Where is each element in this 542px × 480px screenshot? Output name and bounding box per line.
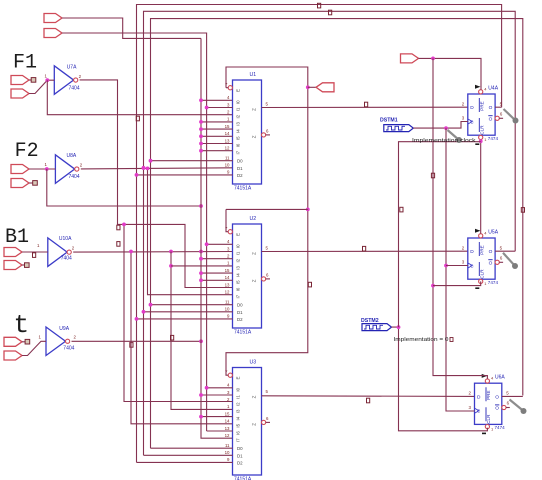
svg-text:D0: D0 — [237, 303, 243, 308]
svg-text:I3: I3 — [236, 409, 241, 413]
junction V9-U3pin3 — [199, 393, 203, 397]
svg-text:12: 12 — [225, 290, 230, 295]
U5A Qbar bubble — [495, 260, 499, 264]
U4A Qbar bubble — [495, 116, 499, 120]
svg-text:10: 10 — [225, 307, 230, 312]
svg-text:B1: B1 — [5, 226, 29, 249]
wire feedback rail 2 (U5A Q to selects) — [144, 11, 516, 455]
junction EN net to port — [306, 85, 310, 89]
flip-flop U4A 7474 body — [468, 94, 495, 135]
wire clock stub to U5A CLK — [446, 265, 468, 267]
svg-text:PRE: PRE — [486, 390, 491, 399]
svg-text:CLR: CLR — [479, 125, 484, 135]
junction V3 on B1 wire — [129, 250, 133, 254]
wire U6A Q to rail3 — [502, 395, 523, 397]
svg-text:Z: Z — [252, 395, 257, 398]
wire bus V9 (data column) — [201, 38, 233, 438]
junction rail2-U2pin10 — [142, 310, 146, 314]
junction rail3-U1pin11 — [149, 159, 153, 163]
svg-text:14: 14 — [225, 419, 230, 424]
wire V9 stub to U2 data pin at y=280.3 — [201, 279, 233, 281]
U2 enable pin bubble — [228, 230, 232, 234]
wire t-a port stub — [22, 341, 25, 343]
U5A clock triangle — [468, 263, 472, 268]
svg-text:I6: I6 — [236, 431, 241, 435]
svg-text:PRE: PRE — [479, 101, 484, 110]
svg-text:12: 12 — [225, 146, 230, 151]
svg-text:O: O — [489, 260, 493, 266]
svg-text:I4: I4 — [236, 129, 241, 133]
net label on reset vertical — [400, 207, 403, 212]
net tick after Implementation = 0 — [450, 338, 453, 342]
svg-text:I1: I1 — [236, 107, 241, 111]
wire V9 stub to U1 data pin at y=121.9 — [201, 121, 233, 123]
svg-text:I6: I6 — [236, 143, 241, 147]
U4A CLR bubble (bottom) — [479, 135, 483, 139]
wire feedback rail 3 (U6A Q to selects) — [151, 19, 523, 449]
input port t-b — [4, 351, 22, 360]
svg-text:7404: 7404 — [69, 174, 80, 180]
wire bus V3 down to U3 pin14 — [131, 252, 233, 424]
junction V7 to U2 pin1 — [169, 264, 173, 268]
wire V9 stub to U3 pin3 — [201, 394, 233, 396]
U6A PRE overbar — [485, 387, 487, 401]
inverter U7A (7404) — [54, 66, 73, 95]
svg-text:Implementation clock: Implementation clock — [412, 138, 476, 144]
flip-flop U5A 7474 body — [468, 238, 495, 279]
junction V9-U3pin15 — [199, 415, 203, 419]
svg-text:Z: Z — [252, 108, 257, 111]
svg-text:13: 13 — [225, 138, 230, 143]
wire V9 stub to U1 pin4 — [201, 99, 233, 101]
wire V10 stub to U2 pin4 — [207, 243, 233, 245]
junction DSTM2 on reset net — [397, 325, 401, 329]
junction rail3-U2pin11 — [149, 303, 153, 307]
wire B1-b port stub — [22, 264, 25, 266]
svg-text:10: 10 — [225, 450, 230, 455]
svg-text:Z: Z — [252, 423, 257, 426]
wire rail3 corner to U3 pin11 — [151, 447, 233, 449]
wire rail1 corner to U3 pin9 — [137, 461, 233, 463]
wire rail3 stub to U2 pin11 — [151, 304, 233, 306]
junction on V9 — [199, 149, 203, 153]
net label on U3Z wire — [367, 398, 370, 403]
input port B1-a — [4, 248, 22, 257]
svg-text:t: t — [14, 310, 30, 340]
wire V9 stub to U2 data pin at y=258.7 — [201, 258, 233, 260]
junction on V9 — [199, 134, 203, 138]
wire U8A output to U1 pin10 — [81, 168, 233, 169]
svg-text:U7A: U7A — [67, 64, 77, 70]
wire F2-a port to gate input — [29, 168, 55, 170]
svg-text:I2: I2 — [236, 402, 241, 406]
U6A CLR bubble (bottom) — [485, 425, 489, 429]
svg-text:14: 14 — [225, 275, 230, 280]
svg-text:D: D — [470, 249, 474, 255]
svg-text:I7: I7 — [236, 438, 241, 442]
svg-text:7404: 7404 — [69, 85, 80, 91]
svg-text:CLR: CLR — [479, 269, 484, 279]
svg-text:I0: I0 — [236, 387, 241, 391]
wire U3 Z output to U6A D — [262, 395, 475, 398]
svg-text:Z: Z — [252, 252, 257, 255]
wire U9A output to data bus — [72, 340, 202, 342]
svg-text:I1: I1 — [236, 251, 241, 255]
U6A Qbar overbar — [495, 404, 499, 406]
wire V10 corner to U3 pin13 — [207, 430, 233, 432]
svg-text:D2: D2 — [237, 460, 243, 465]
svg-text:D1: D1 — [237, 166, 243, 171]
junction V10-U1pin3 — [205, 106, 209, 110]
svg-text:D0: D0 — [237, 159, 243, 164]
wire feedback rail 1 (U4A Q to selects) — [137, 5, 502, 463]
svg-text:I2: I2 — [236, 114, 241, 118]
junction V2 on F1 bus wire — [122, 223, 126, 227]
input port F1-a — [11, 76, 29, 85]
net label 2 on t wire — [171, 335, 174, 340]
inverter U8A (7404) — [55, 155, 74, 184]
U5A PRE arrow marker — [475, 229, 481, 233]
svg-text:U8A: U8A — [67, 153, 77, 159]
net label on t wire — [130, 343, 133, 348]
svg-text:D2: D2 — [237, 317, 243, 322]
junction on V9 — [199, 120, 203, 124]
U6A CLR tie marker — [482, 432, 486, 434]
wire rail1 stub to U2 pin9 — [137, 318, 233, 320]
U5A CLR tie marker — [475, 287, 479, 289]
svg-text:I0: I0 — [236, 244, 241, 248]
wire reset net up to U4A CLR row — [399, 142, 481, 327]
svg-text:74151A: 74151A — [234, 330, 252, 336]
wire V9 stub to U2 data pin at y=273.1 — [201, 272, 233, 274]
svg-text:U2: U2 — [250, 216, 257, 222]
U6A PRE bubble (top) — [485, 379, 489, 383]
svg-text:D1: D1 — [237, 310, 243, 315]
wire U5A CLR to PRE net — [433, 281, 481, 285]
svg-text:I4: I4 — [236, 273, 241, 277]
U4A CLR overbar — [478, 118, 480, 132]
junction F2-out with rail2 vertical — [142, 166, 146, 170]
svg-text:I6: I6 — [236, 287, 241, 291]
wire V7 stub to U2 pin1 — [171, 265, 233, 267]
U1 Zbar stub — [266, 134, 270, 136]
junction F1 input node — [45, 78, 49, 82]
svg-text:E: E — [236, 233, 241, 236]
svg-text:15: 15 — [225, 411, 230, 416]
svg-text:I3: I3 — [236, 266, 241, 270]
wire bus V3c (F2 branch) down to U2 pin12 — [148, 168, 233, 294]
flip-flop U6A 7474 body — [475, 383, 502, 424]
svg-text:13: 13 — [225, 282, 230, 287]
stimulus DSTM1 symbol — [384, 125, 414, 132]
wire U10A output across to U2 pin3 — [73, 251, 232, 254]
svg-text:7474: 7474 — [488, 280, 499, 285]
U6A clock triangle — [475, 408, 479, 413]
probe marker at clock junction — [448, 130, 460, 140]
junction PRE net split — [431, 57, 435, 61]
wire P1 to data column V9 — [62, 18, 201, 38]
svg-text:DSTM1: DSTM1 — [380, 117, 398, 123]
input port B1-b — [4, 261, 22, 270]
svg-text:D: D — [477, 394, 481, 400]
svg-text:11: 11 — [225, 300, 230, 305]
U2 Zbar output bubble — [262, 277, 266, 281]
wire U2 EN horizontal — [226, 208, 308, 210]
svg-text:I7: I7 — [236, 150, 241, 154]
net label on rail3 vertical — [521, 208, 524, 213]
junction F2-out to V3c — [146, 167, 150, 171]
U1 Zbar output bubble — [262, 133, 266, 137]
svg-text:F2: F2 — [15, 140, 39, 163]
U4A Qbar overbar — [488, 115, 492, 117]
U4A Qbar stub — [499, 117, 503, 119]
svg-text:F1: F1 — [13, 52, 37, 75]
input port F1-b — [11, 89, 29, 98]
net label on B1 wire — [33, 253, 36, 258]
stub terminator t-a — [25, 339, 30, 344]
junction on V9 — [199, 257, 203, 261]
net label on PRE vertical — [431, 173, 434, 178]
U6A CLR overbar — [485, 407, 487, 421]
U3 Zbar stub — [266, 421, 270, 423]
wire V9 stub to U1 data pin at y=136.3 — [201, 135, 233, 137]
junction below U4A CLR — [479, 139, 483, 143]
junction rail1-U1pin9 — [135, 173, 139, 177]
junction V9-U1pin4 — [199, 98, 203, 102]
net label on F1-U1 wire — [136, 116, 139, 121]
wire F1-b diagonal to gate input — [29, 80, 54, 93]
input port P2 — [44, 29, 62, 38]
junction V10-U2pin4 — [205, 242, 209, 246]
U4A PRE bubble (top) — [479, 90, 483, 94]
wire V10 stub to U3 pin4 — [207, 387, 233, 389]
input port P1 (top) — [44, 14, 62, 23]
svg-text:74151A: 74151A — [234, 186, 252, 192]
wire U1 enable up and over to EN net — [226, 67, 308, 375]
svg-text:7404: 7404 — [63, 346, 74, 352]
wire rail1 stub to U1 pin9 — [137, 174, 233, 176]
wire F1 node down to U1 pin2 — [47, 80, 232, 115]
input port F2-a — [11, 165, 29, 174]
wire U4A CLR down to U5A PRE — [480, 139, 482, 233]
net label on U2Z wire — [363, 246, 366, 251]
svg-text:I3: I3 — [236, 122, 241, 126]
wire U2 Z output to U5A D — [262, 250, 468, 252]
port ENABLE (points left) — [316, 83, 334, 92]
svg-text:15: 15 — [225, 124, 230, 129]
svg-text:O: O — [495, 394, 499, 400]
junction clock net — [444, 126, 448, 130]
wire V9 stub to U1 data pin at y=129.1 — [201, 128, 233, 130]
junction t-out joins data bus V9 — [199, 339, 203, 343]
stimulus DSTM2 symbol — [362, 324, 392, 331]
svg-text:E: E — [236, 89, 241, 92]
svg-text:I5: I5 — [236, 280, 241, 284]
U6A Qbar bubble — [502, 405, 506, 409]
junction EN net - U2 branch — [306, 208, 310, 212]
wire DSTM2 to U6A CLR — [392, 327, 488, 431]
svg-text:U4A: U4A — [488, 86, 498, 92]
U5A PRE bubble (top) — [479, 234, 483, 238]
U6A PRE arrow marker — [482, 374, 488, 378]
svg-text:PRE: PRE — [479, 245, 484, 254]
U4A PRE overbar — [478, 98, 480, 112]
svg-text:O: O — [489, 105, 493, 111]
inverter U9A (7404) — [46, 327, 66, 356]
svg-text:O: O — [495, 406, 499, 412]
junction on V9 — [199, 142, 203, 146]
net label on EN vertical — [308, 282, 311, 287]
inverter U10A (7404) — [48, 238, 67, 267]
net label on rail 1 — [318, 3, 321, 8]
U6A Qbar stub — [506, 407, 510, 409]
svg-text:O: O — [489, 249, 493, 255]
svg-text:E: E — [236, 376, 241, 379]
wire P2 to vertical bus — [62, 33, 207, 431]
svg-text:U3: U3 — [250, 360, 257, 366]
svg-text:I7: I7 — [236, 294, 241, 298]
junction clock net - U5A CLK — [444, 264, 448, 268]
svg-text:Implementation = 0: Implementation = 0 — [394, 337, 449, 343]
U2 Zbar stub — [266, 278, 270, 280]
svg-text:7474: 7474 — [495, 425, 506, 430]
U4A PRE arrow marker — [475, 85, 481, 89]
wire B1-a port to gate input — [22, 251, 48, 253]
wire DSTM1 to U4A CLK — [413, 122, 468, 129]
net label on rail 2 — [329, 10, 332, 15]
junction V10-U3pin4 — [205, 386, 209, 390]
svg-text:D1: D1 — [237, 453, 243, 458]
wire PRE net vertical to U6A PRE — [433, 58, 487, 378]
wire U4A Q to rail1 — [495, 106, 502, 108]
svg-text:U5A: U5A — [488, 230, 498, 236]
junction on V9 — [199, 278, 203, 282]
U3 enable pin bubble — [228, 373, 232, 377]
svg-text:11: 11 — [225, 156, 230, 161]
svg-text:I0: I0 — [236, 100, 241, 104]
probe marker at U4A Q — [504, 109, 516, 121]
svg-text:U10A: U10A — [59, 236, 72, 242]
svg-text:I5: I5 — [236, 136, 241, 140]
svg-text:I5: I5 — [236, 423, 241, 427]
wire U1 EN short stub — [226, 87, 228, 89]
U3 Zbar output bubble — [262, 420, 266, 424]
wire U2 enable vertical — [226, 209, 228, 231]
stub terminator F1-a — [31, 78, 36, 83]
junction B1-out with data bus V9 — [199, 250, 203, 254]
svg-text:13: 13 — [225, 426, 230, 431]
junction B1-out with bus V7 — [169, 250, 173, 254]
wire U5A Q to rail2 — [495, 250, 515, 252]
svg-text:12: 12 — [225, 433, 230, 438]
U5A CLR bubble (bottom) — [479, 279, 483, 283]
svg-text:7474: 7474 — [488, 136, 499, 141]
mux U2 74151A body — [233, 224, 262, 328]
svg-text:I4: I4 — [236, 416, 241, 420]
svg-text:D2: D2 — [237, 173, 243, 178]
svg-text:U9A: U9A — [59, 326, 69, 332]
svg-text:I2: I2 — [236, 258, 241, 262]
svg-text:O: O — [489, 116, 493, 122]
net label on U1Z wire — [365, 102, 368, 107]
wire rail2 stub to U2 pin10 — [144, 311, 233, 313]
input port t-a — [4, 337, 22, 346]
port PRESET (top right) — [401, 54, 419, 63]
U4A clock triangle — [468, 119, 472, 124]
net label on F1 bus wire — [117, 225, 120, 230]
junction rail1-U2pin9 — [135, 317, 139, 321]
svg-text:74151A: 74151A — [234, 477, 252, 480]
svg-text:D0: D0 — [237, 446, 243, 451]
wire EN port stub — [308, 86, 316, 88]
wire V9 stub to U1 data pin at y=143.5 — [201, 143, 233, 145]
input port F2-b — [11, 179, 29, 188]
mux U3 74151A body — [233, 368, 262, 476]
wire PRE port to U4A PRE — [419, 58, 482, 89]
wire V9 stub to U1 data pin at y=150.7 — [201, 150, 233, 152]
net label 2 on F1 bus wire — [117, 242, 120, 247]
U5A PRE overbar — [478, 242, 480, 256]
svg-text:15: 15 — [225, 268, 230, 273]
svg-text:11: 11 — [225, 443, 230, 448]
U5A Qbar overbar — [488, 259, 492, 261]
U5A Qbar stub — [499, 261, 503, 263]
wire V10 (P2 column) junction to U1 pin3 — [207, 107, 233, 109]
junction F2 input node — [45, 167, 49, 171]
wire U1 Z output to U4A D — [262, 106, 468, 108]
svg-text:Z: Z — [252, 279, 257, 282]
wire bus V7 down to U3 pin1 — [171, 252, 233, 410]
svg-text:Z: Z — [252, 135, 257, 138]
junction PRE net - U5A CLR — [431, 284, 435, 288]
svg-text:U6A: U6A — [495, 375, 505, 381]
U4A CLR tie marker — [475, 143, 479, 145]
stub terminator F2-b — [33, 181, 38, 186]
U1 enable pin bubble — [228, 86, 232, 90]
wire U7A output to bus — [80, 80, 233, 288]
wire t-b diagonal to gate input — [22, 341, 46, 355]
svg-text:D: D — [470, 105, 474, 111]
wire rail2 corner to U3 pin10 — [144, 454, 233, 456]
svg-text:I1: I1 — [236, 395, 241, 399]
wire F2-b port stub — [29, 182, 33, 184]
mux U1 74151A body — [233, 80, 262, 184]
svg-text:U1: U1 — [250, 72, 257, 78]
junction on V9 — [199, 271, 203, 275]
junction F2 wire joins data bus — [199, 204, 203, 208]
wire F2 node down to bus — [47, 169, 201, 206]
probe marker at U5A Q — [503, 253, 515, 266]
wire rail3 stub to U1 pin11 — [151, 160, 233, 162]
stub terminator B1-b — [25, 263, 30, 268]
wire bus V2 down to U3 pin2 — [124, 224, 233, 401]
wire clock net down to U6A CLK — [446, 128, 475, 411]
junction rail2-U1pin10 — [142, 166, 146, 170]
junction on V9 — [199, 127, 203, 131]
svg-text:14: 14 — [225, 131, 230, 136]
svg-text:7404: 7404 — [61, 256, 72, 262]
U5A CLR overbar — [478, 262, 480, 276]
svg-text:10: 10 — [225, 163, 230, 168]
probe marker at U6A Q — [510, 400, 524, 412]
wire F1-a port stub — [29, 79, 31, 81]
svg-text:CLR: CLR — [486, 414, 491, 424]
wire V9 stub to U3 pin15 — [201, 416, 233, 418]
